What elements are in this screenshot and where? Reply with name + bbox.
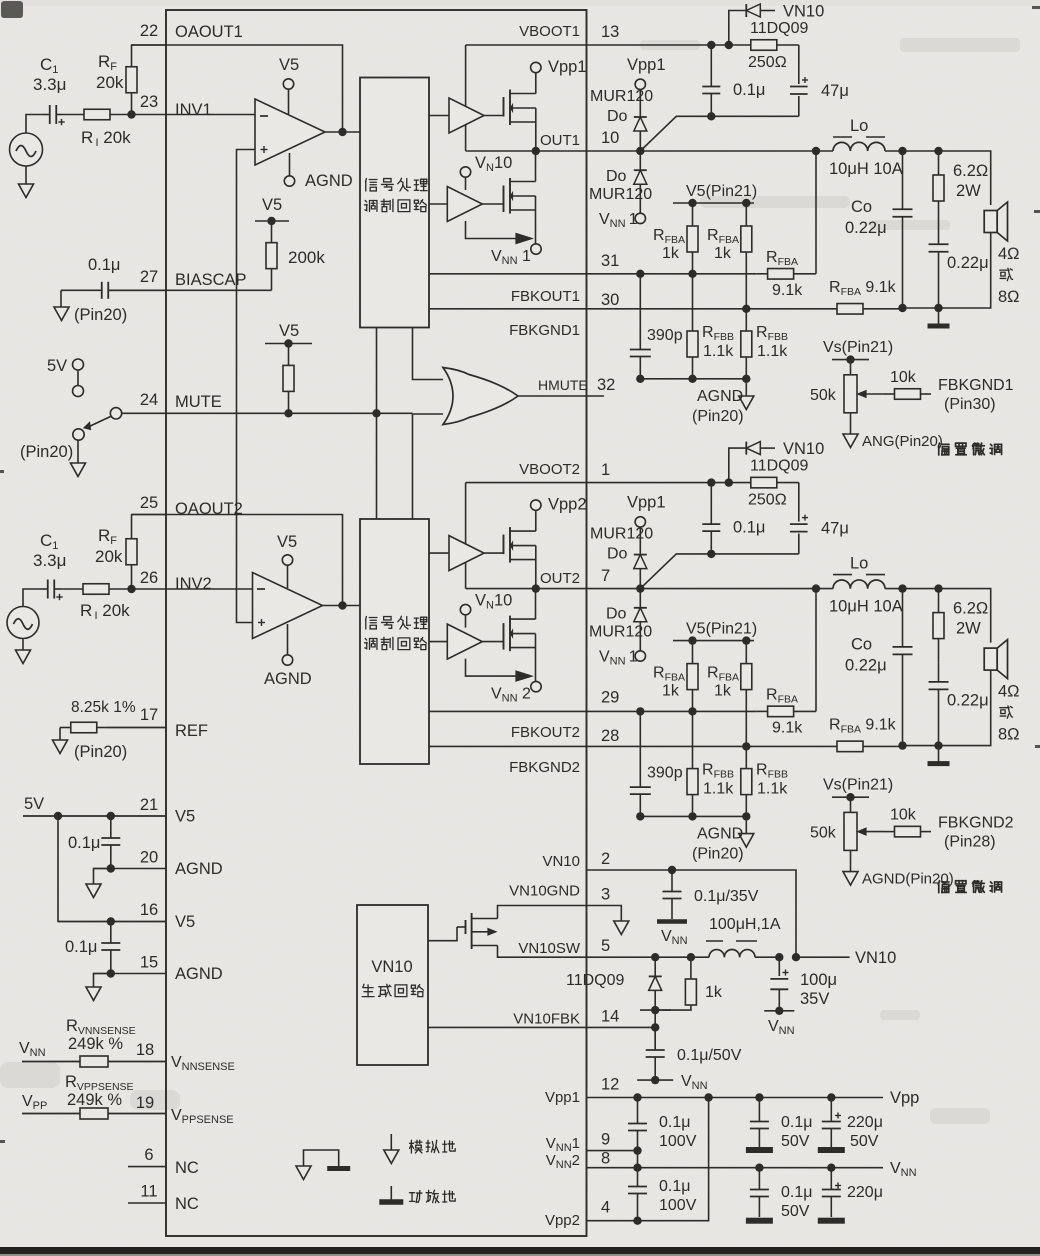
wire row30 ch1 bbox=[429, 308, 836, 310]
pot wiper arrow ch1 bbox=[861, 393, 884, 395]
svg-text:RFBA 9.1k: RFBA 9.1k bbox=[829, 279, 897, 298]
svg-text:21: 21 bbox=[140, 796, 158, 814]
svg-text:INV2: INV2 bbox=[175, 575, 212, 593]
svg-text:Vpp1: Vpp1 bbox=[627, 494, 666, 512]
svg-text:249k %: 249k % bbox=[68, 1035, 123, 1053]
terminal Vpp1 mur ch1 bbox=[635, 79, 645, 89]
svg-text:19: 19 bbox=[136, 1094, 154, 1112]
IC TA2022 body outline bbox=[166, 10, 587, 1236]
svg-text:3.3μ: 3.3μ bbox=[33, 551, 66, 570]
resistor 10k ch1 bbox=[884, 393, 895, 395]
svg-text:31: 31 bbox=[601, 252, 619, 270]
svg-text:11DQ09: 11DQ09 bbox=[750, 458, 809, 475]
plus 47u ch1 bbox=[802, 79, 808, 81]
svg-text:0.1μ: 0.1μ bbox=[65, 938, 97, 956]
svg-text:0.22μ: 0.22μ bbox=[947, 254, 989, 272]
wire VBOOT2 internal bbox=[466, 482, 587, 484]
wire VBOOT1 internal bbox=[466, 44, 587, 46]
block1 text line1 bbox=[365, 179, 376, 191]
V5 terminal above U1A bbox=[288, 89, 290, 114]
capacitor 390p ch2 bbox=[639, 711, 641, 787]
minus sign U1A bbox=[260, 115, 268, 117]
resistor zobel 6.2ohm ch2 bbox=[938, 589, 940, 613]
svg-text:50k: 50k bbox=[810, 825, 837, 842]
svg-text:Lo: Lo bbox=[850, 555, 868, 573]
junction row31 a bbox=[636, 707, 644, 715]
svg-text:2W: 2W bbox=[956, 620, 981, 638]
wire row31 ch1 bbox=[429, 273, 756, 275]
svg-text:FBKGND1: FBKGND1 bbox=[938, 377, 1014, 394]
svg-text:VN10: VN10 bbox=[855, 949, 896, 967]
resistor RFBB left ch1 bbox=[692, 274, 694, 331]
plus sign U1B bbox=[258, 622, 265, 624]
junction sw diode bbox=[651, 953, 659, 961]
svg-text:1k: 1k bbox=[714, 245, 732, 262]
capacitor 47u boot ch2 bbox=[798, 483, 800, 554]
junction bus A mute bbox=[372, 409, 380, 417]
capacitor 0.1u 100V upper bbox=[637, 1098, 639, 1124]
label bias trim ch2 bbox=[938, 881, 949, 893]
svg-text:1.1k: 1.1k bbox=[757, 781, 788, 798]
svg-text:NC: NC bbox=[175, 1159, 199, 1177]
pin 17 REF stub bbox=[108, 727, 167, 729]
junction sw 1k bbox=[687, 953, 695, 961]
junction bootstrap 2 bbox=[725, 478, 733, 486]
terminal VN10 ch1 bbox=[460, 167, 470, 177]
wire to speaker ch2 bbox=[939, 589, 991, 643]
capacitor 47u boot ch1 bbox=[798, 45, 800, 116]
wire OAOUT1 internal bbox=[166, 45, 343, 132]
svg-text:AGND: AGND bbox=[175, 965, 223, 983]
ground below source 1 bbox=[25, 166, 27, 184]
svg-text:6: 6 bbox=[144, 1146, 153, 1164]
pin 27 BIASCAP stub bbox=[109, 289, 167, 291]
svg-text:200k: 200k bbox=[288, 248, 325, 267]
svg-text:OUT1: OUT1 bbox=[540, 132, 580, 149]
svg-text:9.1k: 9.1k bbox=[772, 282, 803, 299]
5V jumper stem bbox=[77, 370, 79, 386]
wire lower mosfet drain to OUT1 bbox=[535, 151, 537, 182]
junction boot bottom bbox=[707, 112, 715, 120]
diode 11DQ09 buck bbox=[654, 957, 656, 1010]
capacitor C1 ch1 bbox=[43, 114, 50, 116]
svg-text:V5: V5 bbox=[175, 808, 195, 826]
svg-text:50V: 50V bbox=[850, 1133, 879, 1150]
resistor RFBA 9.1k lower ch1 bbox=[836, 308, 837, 310]
svg-text:100μ: 100μ bbox=[800, 971, 837, 989]
wire speaker bottom ch2 bbox=[903, 670, 991, 746]
svg-text:VN10SW: VN10SW bbox=[518, 940, 581, 957]
wire OAOUT2 internal bbox=[166, 515, 343, 606]
svg-text:12: 12 bbox=[601, 1076, 619, 1094]
svg-text:VBOOT2: VBOOT2 bbox=[519, 461, 580, 478]
svg-text:7: 7 bbox=[601, 567, 610, 585]
pin 22 OAOUT1 stub bbox=[131, 44, 166, 46]
svg-text:20k: 20k bbox=[96, 73, 124, 92]
svg-text:MUR120: MUR120 bbox=[589, 186, 652, 203]
junction INV1 node ch1 bbox=[127, 110, 135, 118]
svg-text:4: 4 bbox=[601, 1199, 610, 1217]
ground arrow pot ch1 bbox=[850, 428, 852, 434]
capacitor zobel 0.22u ch2 bbox=[938, 663, 940, 682]
wire VN10FBK internal bbox=[428, 1026, 587, 1028]
upper mosfet Q1a bbox=[503, 97, 505, 117]
pot wiper arrow ch2 bbox=[861, 831, 884, 833]
blockVN10 text line2 bbox=[362, 984, 374, 996]
svg-text:0.1μ/50V: 0.1μ/50V bbox=[677, 1047, 742, 1064]
svg-text:Co: Co bbox=[851, 198, 872, 216]
legend label analog ground bbox=[410, 1140, 423, 1153]
bus B lower from OR bbox=[413, 414, 444, 519]
wire upper mosfet source to OUT1 bbox=[535, 108, 537, 151]
junction boot bottom bbox=[707, 550, 715, 558]
resistor RFBA 9.1k lower ch2 bbox=[836, 745, 837, 747]
svg-text:220μ: 220μ bbox=[847, 1184, 883, 1201]
5V jumper lower contact bbox=[73, 386, 84, 397]
bus A block1-block2 bbox=[376, 328, 378, 520]
wire lower driver bottom rail VNN bbox=[466, 221, 517, 239]
plus 220u lower bbox=[835, 1185, 841, 1187]
upper driver buffer ch1 bbox=[429, 115, 449, 117]
svg-text:11: 11 bbox=[140, 1183, 157, 1201]
resistor RVNNSENSE bbox=[22, 1061, 80, 1063]
junction agnd15 bbox=[107, 969, 115, 977]
svg-text:17: 17 bbox=[140, 706, 158, 724]
svg-text:15: 15 bbox=[140, 954, 158, 972]
legend power ground bar bbox=[327, 1166, 350, 1171]
wire pin5 external bbox=[587, 956, 710, 958]
terminal VNN1 mur ch1 bbox=[635, 213, 645, 223]
svg-text:8Ω: 8Ω bbox=[998, 726, 1020, 744]
svg-text:VN10: VN10 bbox=[542, 853, 580, 870]
legend ground tie wire bbox=[304, 1150, 339, 1167]
svg-text:50k: 50k bbox=[810, 387, 837, 404]
svg-text:8.25k 1%: 8.25k 1% bbox=[71, 699, 136, 716]
V5 pullup bar mute bbox=[265, 343, 312, 345]
resistor RI ch2 bbox=[61, 588, 83, 590]
svg-text:24: 24 bbox=[140, 391, 158, 409]
lower mosfet Q1b bbox=[503, 186, 505, 213]
junction fbk node bbox=[640, 1009, 671, 1011]
capacitor C1 ch2 bbox=[41, 588, 48, 590]
switch throw contact bbox=[73, 429, 84, 440]
junction bootstrap 1 bbox=[707, 478, 715, 486]
wire 5V down to pin16 bbox=[58, 816, 166, 922]
wire pin2 VN10 external bbox=[587, 870, 797, 957]
svg-text:V5: V5 bbox=[279, 322, 299, 340]
wire HMUTE out bbox=[518, 395, 604, 397]
resistor zobel 6.2ohm ch1 bbox=[938, 151, 940, 175]
svg-text:6.2Ω: 6.2Ω bbox=[953, 600, 988, 618]
resistor RFBB right ch1 bbox=[745, 309, 747, 331]
mosfet Q3 VN10 switch bbox=[465, 920, 467, 934]
svg-text:ANG(Pin20): ANG(Pin20) bbox=[862, 433, 943, 450]
arrowhead VNN rail ch1 bbox=[516, 234, 532, 244]
resistor RFBB right ch2 bbox=[745, 746, 747, 768]
svg-text:100V: 100V bbox=[659, 1197, 697, 1214]
wire to speaker ch1 bbox=[939, 151, 991, 205]
svg-text:5V: 5V bbox=[24, 795, 44, 813]
junction OUT1 mur bbox=[636, 147, 644, 155]
resistor RFBA 9.1k upper ch1 bbox=[756, 273, 767, 275]
junction row31 b bbox=[688, 707, 696, 715]
resistor 10k ch2 bbox=[884, 831, 895, 833]
capacitor 100u 35V bbox=[778, 957, 780, 976]
svg-text:Do: Do bbox=[606, 606, 627, 623]
junction row30 co bbox=[898, 741, 906, 749]
label or ch1 bbox=[1000, 268, 1013, 280]
svg-text:FBKGND2: FBKGND2 bbox=[509, 759, 580, 776]
svg-text:1k: 1k bbox=[705, 984, 723, 1001]
wire Q3 drain to pin3 bbox=[498, 906, 587, 919]
resistor RFBA 9.1k upper ch2 bbox=[756, 710, 767, 712]
pin 20 AGND stub bbox=[94, 868, 167, 870]
wire feedback bottom ch1 bbox=[640, 378, 746, 380]
pin 6 NC stub bbox=[128, 1166, 166, 1168]
svg-text:100V: 100V bbox=[659, 1133, 697, 1150]
junction bootstrap 1 bbox=[707, 41, 715, 49]
wire ref gnd bbox=[59, 728, 61, 741]
wire U1A plus input bus bbox=[237, 150, 256, 623]
svg-text:10μH 10A: 10μH 10A bbox=[829, 598, 903, 616]
svg-text:16: 16 bbox=[140, 901, 158, 919]
svg-text:50V: 50V bbox=[781, 1133, 810, 1150]
wire src1 to C1 bbox=[26, 115, 43, 134]
wire VN10 out bbox=[796, 956, 850, 958]
svg-text:26: 26 bbox=[140, 569, 158, 587]
svg-text:2W: 2W bbox=[956, 182, 981, 200]
Lo bracket ch2 bbox=[833, 574, 852, 576]
bus B upper to OR bbox=[413, 328, 444, 380]
wire boot bottom ch1 bbox=[711, 115, 799, 117]
diode MUR120 lower ch2 bbox=[639, 589, 641, 651]
driver box rail VBOOT1-OUT1 bbox=[465, 45, 467, 151]
junction gnd bottom ch2 bbox=[934, 741, 942, 749]
ground arrow pin3 bbox=[614, 921, 629, 935]
svg-text:(Pin20): (Pin20) bbox=[692, 846, 744, 863]
junction zobel top ch2 bbox=[934, 584, 942, 592]
ground arrow feedback ch2 bbox=[745, 816, 747, 833]
wire pin25 corner bbox=[132, 514, 167, 516]
wire VBOOT2 external bbox=[587, 482, 729, 484]
svg-text:R I 20k: R I 20k bbox=[81, 128, 131, 149]
svg-text:AGND: AGND bbox=[264, 670, 312, 688]
lower driver buffer ch1 bbox=[429, 203, 447, 205]
svg-text:390p: 390p bbox=[647, 327, 683, 344]
svg-text:50V: 50V bbox=[781, 1203, 810, 1220]
bottom scan band bbox=[0, 1247, 1040, 1254]
scan smudges bbox=[1, 1, 23, 18]
pin 26 INV2 stub bbox=[131, 588, 166, 590]
pin 23 INV1 stub bbox=[131, 114, 166, 116]
svg-text:47μ: 47μ bbox=[821, 82, 849, 100]
svg-text:VN10: VN10 bbox=[783, 3, 824, 21]
svg-text:(Pin20): (Pin20) bbox=[74, 306, 127, 324]
OR gate HMUTE bbox=[443, 368, 518, 425]
signal source SRC2 (sine) bbox=[7, 607, 39, 639]
V5(Pin21) rail ch1 bbox=[673, 202, 754, 204]
block2 text line2 bbox=[365, 638, 377, 649]
legend label power ground bbox=[410, 1191, 422, 1203]
power ground bar ch2 bbox=[938, 746, 940, 762]
svg-text:9: 9 bbox=[601, 1131, 610, 1149]
svg-text:Vs(Pin21): Vs(Pin21) bbox=[823, 777, 893, 794]
svg-text:RFBA 9.1k: RFBA 9.1k bbox=[829, 717, 897, 736]
svg-text:OAOUT1: OAOUT1 bbox=[175, 23, 243, 41]
svg-text:(Pin28): (Pin28) bbox=[944, 834, 996, 851]
capacitor Co ch2 bbox=[902, 589, 904, 647]
capacitor Co ch1 bbox=[902, 151, 904, 209]
svg-text:HMUTE: HMUTE bbox=[538, 377, 588, 393]
svg-text:VN10: VN10 bbox=[371, 958, 412, 976]
capacitor zobel 0.22u ch1 bbox=[938, 225, 940, 244]
diode MUR120 upper ch2 bbox=[634, 554, 647, 556]
svg-text:AGND: AGND bbox=[305, 172, 353, 190]
svg-text:6.2Ω: 6.2Ω bbox=[953, 162, 988, 180]
speaker ch2 bbox=[984, 648, 997, 670]
pin 24 MUTE stub bbox=[121, 412, 166, 414]
wire pin14 external bbox=[587, 1026, 656, 1028]
op-amp U1A triangle bbox=[255, 99, 325, 165]
junction bootstrap 2 bbox=[725, 41, 733, 49]
lower driver buffer ch2 bbox=[429, 641, 447, 643]
svg-text:28: 28 bbox=[601, 727, 619, 745]
junction Co top ch1 bbox=[898, 147, 906, 155]
junction mute pullup bbox=[284, 409, 292, 417]
wire U1A output to block1 bbox=[325, 131, 360, 133]
plus mark C1 ch1 bbox=[58, 121, 64, 123]
svg-text:Vpp1: Vpp1 bbox=[627, 56, 666, 74]
svg-text:MUTE: MUTE bbox=[175, 393, 222, 411]
svg-text:VN10: VN10 bbox=[475, 154, 512, 174]
upper driver buffer ch2 bbox=[429, 552, 449, 554]
capacitor 0.1u 50V lower bbox=[758, 1168, 760, 1190]
svg-text:AGND: AGND bbox=[697, 388, 743, 405]
svg-text:1.1k: 1.1k bbox=[757, 343, 788, 360]
junction U1B out bbox=[338, 601, 346, 609]
inductor Lo ch2 bbox=[816, 588, 833, 590]
V5(Pin21) rail ch2 bbox=[673, 640, 754, 642]
legend power gnd symbol bbox=[390, 1186, 392, 1200]
resistor 8.25k REF bbox=[60, 727, 71, 729]
svg-text:(Pin20): (Pin20) bbox=[20, 443, 73, 461]
resistor RFBA 1k left ch1 bbox=[692, 203, 694, 226]
wire pin8 VNN rail bbox=[587, 1167, 884, 1169]
svg-text:0.1μ: 0.1μ bbox=[659, 1114, 690, 1131]
block2 signal processing ch2 bbox=[360, 519, 429, 764]
potentiometer 50k ch1 bbox=[850, 360, 852, 375]
svg-text:47μ: 47μ bbox=[821, 520, 849, 538]
svg-text:VBOOT1: VBOOT1 bbox=[519, 23, 580, 40]
junction buck out b bbox=[792, 953, 800, 961]
wire INV1 internal bbox=[166, 114, 255, 116]
V5 terminal above U1B bbox=[287, 565, 289, 588]
junction OUT1 at mosfets bbox=[532, 147, 540, 155]
svg-text:Vpp2: Vpp2 bbox=[545, 1212, 580, 1229]
svg-text:1k: 1k bbox=[714, 683, 732, 700]
wire 9.1k to OUT node ch2 bbox=[815, 589, 817, 712]
svg-text:FBKOUT1: FBKOUT1 bbox=[511, 288, 580, 305]
svg-text:0.1μ: 0.1μ bbox=[68, 834, 100, 852]
svg-text:OUT2: OUT2 bbox=[540, 570, 580, 587]
junction U1A out bbox=[338, 128, 346, 136]
wire pin4 Vpp2 tie bbox=[587, 1098, 709, 1221]
wire upper mosfet drain to Vpp terminal bbox=[535, 73, 537, 94]
svg-text:MUR120: MUR120 bbox=[590, 526, 653, 543]
upper mosfet Q2a bbox=[503, 535, 505, 555]
svg-text:(Pin30): (Pin30) bbox=[944, 396, 996, 413]
switch common contact bbox=[110, 408, 121, 419]
junction pin2 cap bbox=[668, 866, 676, 874]
svg-text:0.22μ: 0.22μ bbox=[947, 692, 989, 710]
terminal VNN1 ch1 bbox=[531, 244, 541, 254]
op-amp U1B triangle bbox=[253, 573, 323, 639]
wire MUTE internal bbox=[166, 412, 413, 414]
wire src2 to C2 bbox=[23, 589, 41, 607]
capacitor 0.1u boot ch2 bbox=[710, 483, 712, 524]
diode MUR120 lower ch1 bbox=[639, 151, 641, 213]
legend analog gnd symbol bbox=[390, 1134, 392, 1150]
svg-text:VN10FBK: VN10FBK bbox=[513, 1010, 580, 1027]
resistor RFBA 1k right ch2 bbox=[745, 641, 747, 664]
svg-text:VN10: VN10 bbox=[783, 440, 824, 458]
junction row30 a bbox=[742, 305, 750, 313]
block VN10 generator bbox=[357, 905, 428, 1065]
capacitor 390p ch1 bbox=[639, 274, 641, 350]
wire pin9-pin8 tie bbox=[637, 1151, 639, 1168]
pin 25 OAOUT2 stub bbox=[131, 514, 166, 516]
wire row30 ch2 bbox=[429, 745, 836, 747]
svg-text:FBKOUT2: FBKOUT2 bbox=[511, 724, 580, 741]
wire pin3 external bbox=[587, 906, 622, 922]
VNN stub under 0.1u50V bbox=[637, 1079, 673, 1081]
wire VN10 gate drive bbox=[428, 927, 457, 941]
plus mark C1 ch2 bbox=[56, 596, 62, 598]
svg-text:29: 29 bbox=[601, 689, 619, 707]
V5 rail tick 200k bbox=[255, 220, 289, 222]
svg-text:20k: 20k bbox=[95, 547, 123, 566]
plus 100u bbox=[783, 972, 789, 974]
wire lower mosfet drain to OUT2 bbox=[535, 589, 537, 620]
svg-text:30: 30 bbox=[601, 291, 619, 309]
svg-text:11DQ09: 11DQ09 bbox=[566, 972, 625, 989]
junction OUT1 filter left bbox=[812, 147, 820, 155]
svg-text:9.1k: 9.1k bbox=[772, 720, 803, 737]
svg-text:Do: Do bbox=[607, 108, 628, 125]
junction row31 b bbox=[688, 270, 696, 278]
AGND terminal below U1B bbox=[287, 624, 289, 655]
svg-text:AGND: AGND bbox=[697, 826, 743, 843]
svg-text:Vpp1: Vpp1 bbox=[548, 58, 587, 76]
svg-text:Vs(Pin21): Vs(Pin21) bbox=[823, 339, 893, 356]
wire Q3 source to pin5 bbox=[498, 946, 587, 958]
Vs(Pin21) bar ch2 bbox=[832, 796, 869, 798]
Lo bracket ch1 bbox=[833, 136, 852, 138]
svg-text:14: 14 bbox=[601, 1007, 619, 1025]
pin 18 VNNSENSE stub bbox=[22, 1061, 166, 1063]
svg-text:Lo: Lo bbox=[850, 117, 868, 135]
capacitor 0.1u BIASCAP bbox=[61, 289, 102, 291]
capacitor 0.1u boot ch1 bbox=[710, 45, 712, 87]
junction row31 a bbox=[636, 270, 644, 278]
switch blade with arrow bbox=[86, 417, 111, 429]
svg-text:1: 1 bbox=[601, 461, 610, 479]
junction OUT2 filter left bbox=[812, 584, 820, 592]
svg-text:10: 10 bbox=[601, 129, 619, 147]
VNN stub under 100u bbox=[764, 1010, 794, 1012]
svg-text:35V: 35V bbox=[800, 990, 829, 1008]
label or ch2 bbox=[1000, 706, 1013, 718]
